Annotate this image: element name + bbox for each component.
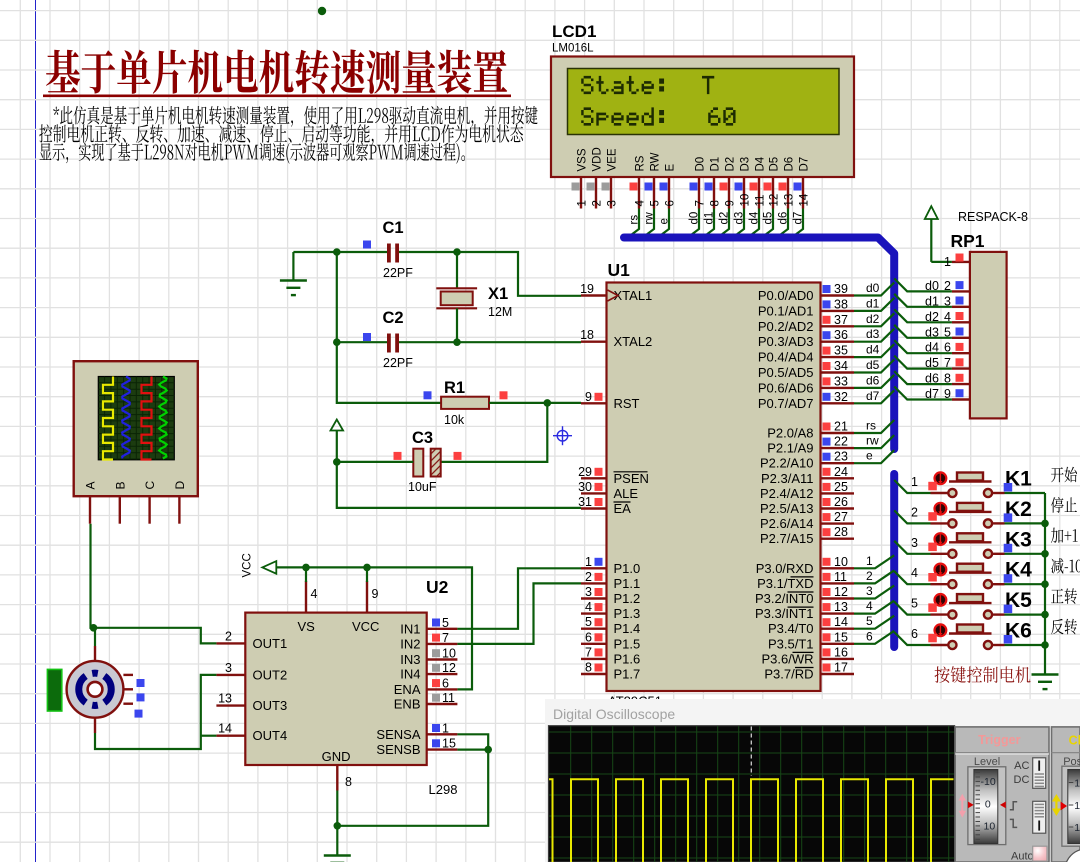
U1 pin 8 P1.7: [581, 661, 640, 682]
svg-text:D1: D1: [710, 157, 722, 172]
svg-text:13: 13: [218, 692, 232, 706]
svg-text:14: 14: [218, 722, 232, 736]
svg-text:C1: C1: [383, 219, 404, 237]
trigger level marker arrows: [959, 794, 1006, 818]
U1 pin 16 P3.6/WR: [761, 645, 854, 666]
svg-text:2: 2: [866, 569, 873, 583]
U1 pin 28 P2.7/A15: [760, 525, 854, 546]
wire GND to ground: [336, 791, 338, 856]
wire key bus to K2: [894, 505, 930, 523]
U1 pin 22 P2.1/A9: [767, 435, 854, 456]
svg-text:2: 2: [592, 200, 604, 206]
crystal X1: [436, 288, 477, 308]
svg-text:19: 19: [580, 282, 594, 296]
oscilloscope component body: [74, 361, 198, 496]
svg-text:5: 5: [442, 616, 449, 630]
U2 pin 15 SENSB: [376, 737, 457, 758]
svg-text:SENSA: SENSA: [376, 727, 420, 742]
svg-text:1: 1: [911, 475, 918, 489]
svg-text:15: 15: [834, 630, 848, 644]
U2 pin 8 GND: [337, 765, 352, 791]
bus LCD to U1 port0/port2: [624, 238, 894, 450]
wire LCD pin 14 to bus net d7: [791, 209, 805, 239]
ground keys common: [1032, 673, 1059, 675]
switch K1: [928, 472, 1004, 497]
description line 1: [53, 106, 537, 127]
title underline: [43, 95, 511, 98]
U2 pin 2 OUT1: [216, 629, 287, 651]
svg-text:6: 6: [442, 676, 449, 690]
junction keys common: [1041, 520, 1049, 528]
svg-text:rw: rw: [866, 434, 879, 448]
label key K4 function: [1051, 558, 1080, 574]
wire U1 P0.7 to bus net d7: [854, 389, 894, 404]
U1 pin 27 P2.6/A14: [760, 510, 854, 531]
svg-text:28: 28: [834, 525, 848, 539]
wire U2 IN1 to U1 P1.0: [457, 568, 581, 629]
wire LCD pin 11 to bus net d4: [747, 209, 761, 239]
trigger level knob: [968, 767, 1006, 845]
svg-text:P1.6: P1.6: [614, 651, 641, 666]
wire motor top: [94, 628, 96, 646]
svg-text:-10: -10: [981, 776, 996, 788]
capacitor C3 electrolytic plates: [413, 449, 440, 477]
trigger coupling slider: [1033, 758, 1046, 789]
wire U1 P3.5 to key bus net 6: [854, 629, 894, 644]
description line 2: [39, 124, 523, 145]
oscilloscope component screen: [98, 377, 174, 460]
junction node C1-C2 column: [333, 248, 341, 256]
LCD pin 9 D2: [720, 157, 737, 209]
wire X1 top: [456, 252, 458, 288]
svg-text:d4: d4: [749, 211, 761, 224]
svg-text:6: 6: [665, 200, 677, 206]
svg-text:P2.1/A9: P2.1/A9: [767, 441, 813, 456]
wire U1 P3.4 to key bus net 5: [854, 614, 894, 629]
svg-text:d6: d6: [866, 373, 880, 387]
svg-text:P1.1: P1.1: [614, 576, 641, 591]
svg-text:d3: d3: [734, 212, 746, 225]
svg-text:RESPACK-8: RESPACK-8: [958, 210, 1028, 224]
svg-text:SENSB: SENSB: [376, 742, 420, 757]
U1 pin 5 P1.4: [581, 615, 640, 636]
U2 pin 11 ENB: [394, 691, 458, 712]
wire C1 to XTAL1: [399, 251, 457, 253]
svg-text:d7: d7: [866, 389, 880, 403]
svg-text:D2: D2: [725, 157, 737, 172]
digital oscilloscope screen: [549, 726, 955, 862]
U1 pin 18 XTAL2: [580, 328, 652, 349]
oscilloscope pin D: [173, 481, 187, 524]
svg-text:VDD: VDD: [592, 147, 604, 171]
svg-text:1: 1: [585, 555, 592, 569]
wire SENSB: [457, 748, 488, 750]
oscilloscope pin B: [113, 481, 127, 523]
RP1 pin 4 net d2: [925, 310, 970, 324]
svg-text:P0.1/AD1: P0.1/AD1: [758, 303, 814, 318]
svg-text:GND: GND: [322, 749, 351, 764]
svg-text:P2.4/A12: P2.4/A12: [760, 486, 814, 501]
oscilloscope trace C red: [142, 377, 152, 460]
svg-text:P0.7/AD7: P0.7/AD7: [758, 396, 814, 411]
junction RST column: [544, 399, 552, 407]
U1 pin 29 PSEN: [578, 465, 649, 486]
U1 pin 3 P1.2: [581, 585, 640, 606]
svg-text:OUT4: OUT4: [253, 728, 288, 743]
svg-text:IN4: IN4: [400, 667, 420, 682]
svg-text:3: 3: [607, 200, 619, 206]
LCD pin 2 VDD: [587, 147, 604, 208]
svg-text:36: 36: [834, 328, 848, 342]
svg-text:C: C: [143, 481, 157, 490]
svg-text:P2.2/A10: P2.2/A10: [760, 456, 814, 471]
svg-text:13: 13: [784, 194, 796, 207]
trigger edge icons: [1010, 802, 1017, 828]
RP1 pin 9 net d7: [925, 387, 970, 401]
svg-text:14: 14: [799, 193, 811, 206]
svg-text:1: 1: [442, 721, 449, 735]
junction VCC pin: [363, 564, 371, 572]
svg-text:ALE: ALE: [614, 486, 639, 501]
wire scope A to motor and OUT1: [91, 524, 217, 644]
svg-text:3: 3: [866, 584, 873, 598]
wire U1 P2.0 to bus net rs: [854, 419, 894, 434]
svg-text:4: 4: [635, 200, 647, 207]
wire U1 P0.1 to bus net d1: [854, 296, 894, 311]
trigger auto button: [1011, 846, 1047, 862]
svg-text:10: 10: [834, 555, 848, 569]
PWM trace yellow: [549, 779, 954, 862]
svg-text:P1.5: P1.5: [614, 636, 641, 651]
wire U1 P3.3 to key bus net 4: [854, 599, 894, 614]
svg-text:P3.3/INT1: P3.3/INT1: [755, 606, 814, 621]
wire K1 to common: [1005, 492, 1046, 494]
U1 AT89C51 body: [607, 283, 821, 692]
svg-text:7: 7: [695, 200, 707, 206]
junction keys common: [1041, 550, 1049, 558]
svg-text:P0.2/AD2: P0.2/AD2: [758, 319, 814, 334]
svg-text:13: 13: [834, 600, 848, 614]
svg-text:d4: d4: [866, 343, 880, 357]
wire K5 to common: [1005, 613, 1046, 615]
U1 pin 11 P3.1/TXD: [757, 570, 854, 591]
svg-text:P3.5/T1: P3.5/T1: [768, 636, 814, 651]
svg-text:U2: U2: [426, 577, 449, 597]
svg-text:11: 11: [755, 195, 767, 207]
svg-text:7: 7: [585, 645, 592, 659]
U2 pin 12 IN4: [400, 661, 457, 682]
svg-text:9: 9: [372, 587, 379, 601]
junction VS: [302, 564, 310, 572]
svg-text:P0.3/AD3: P0.3/AD3: [758, 334, 814, 349]
U1 pin 24 P2.3/A11: [761, 465, 854, 486]
trigger panel: [955, 727, 1049, 862]
svg-text:9: 9: [725, 200, 737, 206]
U1 pin 2 P1.1: [581, 570, 640, 591]
wire bus to RP1 pin 6: [894, 340, 952, 353]
wire LCD pin 7 to bus net d0: [687, 209, 701, 239]
wire U1 P0.0 to bus net d0: [854, 281, 894, 296]
svg-text:4: 4: [311, 587, 318, 601]
wire bus to RP1 pin 7: [894, 356, 952, 369]
svg-text:e: e: [659, 218, 671, 224]
wire U2 IN2 to U1 P1.1: [457, 583, 581, 644]
svg-text:12: 12: [442, 661, 456, 675]
svg-text:2: 2: [225, 629, 232, 643]
svg-text:10k: 10k: [444, 413, 465, 427]
svg-text:ENB: ENB: [394, 697, 421, 712]
svg-text:L298: L298: [429, 782, 458, 797]
wire U1 P3.2 to key bus net 3: [854, 584, 894, 599]
svg-text:RW: RW: [650, 152, 662, 171]
wire keys common vertical: [1044, 493, 1046, 675]
svg-text:16: 16: [834, 645, 848, 659]
svg-text:P0.0/AD0: P0.0/AD0: [758, 288, 814, 303]
LCD pin 5 RW: [645, 152, 662, 208]
U1 pin 4 P1.3: [581, 600, 640, 621]
screen cursor dashed: [750, 727, 752, 777]
svg-text:12: 12: [834, 585, 848, 599]
switch K5: [928, 594, 1004, 619]
svg-text:33: 33: [834, 374, 848, 388]
svg-text:26: 26: [834, 495, 848, 509]
junction motor top: [90, 624, 98, 632]
RP1 pin 8 net d6: [925, 372, 970, 386]
U1 pin 19 XTAL1: [580, 282, 652, 303]
junction keys common: [1041, 580, 1049, 588]
svg-text:1: 1: [866, 554, 873, 568]
wire bus to RP1 pin 4: [894, 309, 952, 322]
svg-text:D4: D4: [755, 156, 767, 171]
channel panel: [1052, 727, 1080, 862]
svg-text:3: 3: [585, 585, 592, 599]
svg-text:OUT2: OUT2: [253, 667, 288, 682]
svg-text:DC: DC: [1014, 774, 1030, 786]
svg-text:d1: d1: [866, 296, 880, 310]
wire key bus to K3: [894, 536, 930, 554]
wire K4 to common: [1005, 583, 1046, 585]
svg-text:24: 24: [834, 465, 848, 479]
svg-text:6: 6: [911, 627, 918, 641]
wire LCD pin 13 to bus net d6: [776, 209, 790, 239]
U1 pin 12 P3.2/INT0: [755, 585, 854, 606]
wire bus to RP1 pin 2: [894, 278, 952, 291]
svg-text:e: e: [866, 449, 873, 463]
svg-text:5: 5: [866, 614, 873, 628]
svg-text:17: 17: [834, 661, 848, 675]
svg-text:VEE: VEE: [607, 148, 619, 171]
wire LCD pin 9 to bus net d2: [717, 209, 731, 239]
svg-text:EA: EA: [614, 501, 632, 516]
svg-text:P2.6/A14: P2.6/A14: [760, 516, 814, 531]
svg-text:30: 30: [578, 480, 592, 494]
U1 pin 25 P2.4/A12: [760, 480, 854, 501]
svg-text:D: D: [173, 481, 187, 490]
wire VS stub to rail: [305, 567, 307, 582]
svg-text:RP1: RP1: [951, 231, 985, 251]
LCD pin 13 D6: [779, 157, 796, 209]
svg-text:XTAL2: XTAL2: [614, 334, 653, 349]
oscilloscope trace B blue: [122, 377, 130, 459]
switch K4: [928, 564, 1004, 589]
svg-text:P2.7/A15: P2.7/A15: [760, 531, 814, 546]
svg-text:22PF: 22PF: [383, 356, 413, 370]
U1 pin 10 P3.0/RXD: [756, 555, 854, 576]
wire U1 P0.3 to bus net d3: [854, 327, 894, 342]
label key K6 function: [1051, 619, 1077, 635]
svg-text:11: 11: [834, 570, 847, 584]
svg-text:P3.7/RD: P3.7/RD: [764, 667, 813, 682]
wire LCD pin 6 to bus net e: [657, 209, 671, 239]
LCD pin 7 D0: [690, 157, 707, 209]
ground U2: [324, 854, 351, 856]
svg-text:AC: AC: [1014, 760, 1029, 772]
label key K2 function: [1051, 497, 1077, 513]
wire U1 P2.2 to bus net e: [854, 449, 894, 464]
svg-text:rs: rs: [866, 419, 876, 433]
svg-text:X1: X1: [488, 285, 508, 303]
svg-text:4: 4: [585, 600, 592, 614]
svg-text:P1.2: P1.2: [614, 591, 641, 606]
wire key bus to K1: [894, 475, 930, 493]
svg-text:VCC: VCC: [352, 619, 379, 634]
power VCC arrow above C3: [331, 420, 344, 431]
svg-text:11: 11: [442, 691, 455, 705]
svg-text:d6: d6: [778, 212, 790, 225]
LCD pin 6 E: [660, 164, 677, 209]
svg-text:d5: d5: [866, 358, 880, 372]
svg-text:Digital Oscilloscope: Digital Oscilloscope: [553, 706, 675, 722]
svg-text:38: 38: [834, 297, 848, 311]
svg-text:VCC: VCC: [242, 553, 254, 577]
svg-text:P2.5/A13: P2.5/A13: [760, 501, 814, 516]
power VCC arrow left of U2: [242, 553, 277, 577]
U1 pin 35 P0.4/AD4: [758, 344, 854, 365]
wire VCC column down to EA: [337, 462, 581, 508]
U2 pin 4 VS: [298, 581, 318, 634]
wire VCC pin stub to rail: [366, 567, 368, 582]
svg-text:C3: C3: [412, 429, 433, 447]
svg-text:IN3: IN3: [400, 652, 420, 667]
origin crosshair marker: [553, 426, 572, 445]
oscilloscope pin A: [84, 481, 98, 523]
svg-text:11: 11: [1074, 778, 1080, 790]
wire K6 to common: [1005, 644, 1046, 646]
U1 pin 26 P2.5/A13: [760, 495, 854, 516]
svg-text:12M: 12M: [488, 305, 512, 319]
wire OUT4 branch: [201, 735, 217, 737]
svg-text:31: 31: [578, 495, 592, 509]
wire K2 to common: [1005, 522, 1046, 524]
svg-text:P0.5/AD5: P0.5/AD5: [758, 365, 814, 380]
svg-text:6: 6: [585, 630, 592, 644]
svg-text:P1.7: P1.7: [614, 667, 641, 682]
svg-text:d7: d7: [793, 212, 805, 225]
wire U1 P3.1 to key bus net 2: [854, 569, 894, 584]
description line 3: [40, 142, 465, 163]
RP1 pin 5 net d3: [925, 325, 970, 339]
svg-text:A: A: [84, 481, 98, 489]
wire U1 P0.4 to bus net d4: [854, 343, 894, 358]
svg-text:13: 13: [1074, 822, 1080, 834]
svg-text:P0.6/AD6: P0.6/AD6: [758, 380, 814, 395]
U2 pin 6 ENA: [394, 676, 458, 697]
svg-text:d5: d5: [763, 212, 775, 225]
svg-text:3: 3: [225, 661, 232, 675]
RP1 pin 1: [931, 254, 970, 270]
wire bus to RP1 pin 5: [894, 325, 952, 338]
svg-text:P1.0: P1.0: [614, 561, 641, 576]
wire key bus to K5: [894, 597, 930, 615]
label 按键控制电机: [935, 666, 1031, 683]
LCD screen: [568, 69, 840, 135]
LCD pin 8 D1: [705, 157, 722, 209]
RP1 pin 3 net d1: [925, 294, 970, 308]
wire ground to C1: [293, 251, 387, 253]
svg-text:Trigger: Trigger: [978, 733, 1021, 747]
ground near C1: [280, 279, 307, 281]
svg-text:D3: D3: [740, 157, 752, 172]
svg-text:C2: C2: [383, 309, 404, 327]
svg-text:d0: d0: [689, 212, 701, 225]
U1 pin 9 RST: [581, 390, 640, 411]
svg-text:VSS: VSS: [577, 148, 589, 171]
svg-text:LM016L: LM016L: [552, 43, 594, 55]
U1 pin 13 P3.3/INT1: [755, 600, 854, 621]
wire motor bottom to OUT2 OUT4: [94, 718, 96, 733]
svg-text:37: 37: [834, 313, 848, 327]
wire LCD pin 8 to bus net d1: [702, 209, 716, 239]
svg-text:0: 0: [985, 799, 991, 811]
U2 pin 13 OUT3: [216, 692, 287, 714]
oscilloscope trace D green: [159, 377, 167, 459]
svg-text:5: 5: [585, 615, 592, 629]
channel dial corner: [1065, 849, 1080, 862]
pin square C1 blue: [363, 241, 371, 249]
svg-text:IN1: IN1: [400, 621, 420, 636]
screen grid: [549, 726, 954, 862]
svg-text:10: 10: [984, 821, 996, 833]
switch K6: [928, 624, 1004, 649]
motor label green tag: [47, 669, 61, 711]
junction SENSB: [484, 746, 492, 754]
svg-text:P2.3/A11: P2.3/A11: [761, 471, 814, 486]
svg-text:12: 12: [1074, 800, 1080, 812]
svg-text:B: B: [113, 481, 127, 489]
svg-text:35: 35: [834, 344, 848, 358]
svg-text:d3: d3: [866, 327, 880, 341]
svg-text:15: 15: [442, 737, 456, 751]
bus U1 port3 to keys: [890, 474, 898, 647]
wire LCD pin 12 to bus net d5: [761, 209, 775, 239]
svg-text:OUT3: OUT3: [253, 698, 288, 713]
svg-text:27: 27: [834, 510, 848, 524]
U1 pin 17 P3.7/RD: [764, 661, 854, 682]
U1 pin 30 ALE: [578, 480, 638, 501]
svg-text:9: 9: [585, 390, 592, 404]
wire U1 P0.6 to bus net d6: [854, 373, 894, 388]
label key K3 function: [1051, 528, 1078, 544]
svg-text:R1: R1: [444, 379, 465, 397]
wire C1-C2 vertical: [336, 252, 338, 342]
U2 pin 5 IN1: [400, 616, 457, 637]
resistor R1 body: [441, 397, 489, 409]
pin square C3 left red: [394, 452, 402, 460]
wire U1 P2.1 to bus net rw: [854, 434, 894, 449]
junction C2 left: [333, 338, 341, 346]
LCD pin 12 D5: [764, 157, 781, 209]
svg-text:Ch: Ch: [1069, 734, 1080, 748]
